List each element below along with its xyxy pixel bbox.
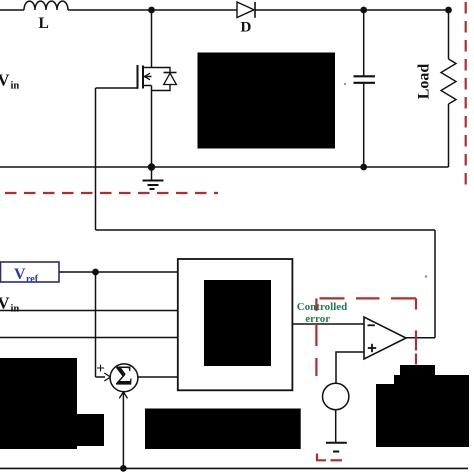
node at source/bottom rail [148, 163, 155, 170]
node at capacitor/top rail [360, 7, 367, 14]
inductor L [24, 1, 68, 10]
svg-text:+: + [96, 361, 105, 377]
svg-text:V: V [0, 71, 10, 90]
svg-text:V: V [14, 266, 26, 283]
wire gate drive: vertical to op-amp output [434, 230, 436, 338]
wire gate drive: vertical from gate [95, 88, 97, 230]
wire summer bottom input [122, 393, 124, 469]
wire top rail right segment [255, 9, 449, 11]
arrowhead into summer (left) [104, 373, 110, 381]
ground (power stage) [143, 167, 164, 189]
svg-text:L: L [39, 15, 49, 32]
ground (reference source) [326, 443, 347, 452]
svg-text:D: D [241, 20, 252, 36]
svg-text:ref: ref [26, 274, 39, 285]
black box (redacted, lower left main) [0, 358, 77, 449]
label Vin (sense input, lower left) [0, 294, 19, 315]
capacitor C [354, 10, 376, 167]
label Vref [14, 266, 39, 285]
svg-text:Controlled: Controlled [297, 301, 348, 313]
wire controlled error output [292, 323, 364, 325]
black box (redacted, bottom right step) [394, 375, 469, 384]
svg-text:in: in [11, 81, 20, 92]
wire gate lead [96, 87, 138, 89]
black box (redacted, lower left extension) [77, 414, 104, 446]
summer S1 [110, 364, 138, 392]
svg-text:Load: Load [416, 64, 433, 100]
Vref box [1, 262, 60, 282]
svg-text:in: in [11, 304, 20, 315]
black box (redacted, bottom center) [145, 409, 301, 450]
arrowhead into summer (bottom) [119, 392, 127, 399]
node on bottom return line [120, 465, 127, 472]
op-amp U1 [364, 317, 406, 359]
wire Vref node down to summer [95, 272, 97, 377]
black box (redacted, bottom right sliver) [400, 365, 435, 375]
wire bottom rail [0, 166, 449, 168]
label Vin (input source, top left) [0, 71, 19, 92]
wire op-amp output [406, 337, 435, 339]
svg-text:V: V [0, 294, 10, 313]
wire Vin sense to block [0, 310, 178, 312]
speck near op-amp box [425, 275, 427, 277]
svg-text:error: error [305, 313, 330, 325]
wire Vref to block [59, 271, 178, 273]
black box (redacted, bottom right main) [376, 384, 469, 447]
wire top rail left segment [0, 9, 24, 11]
wire summer output to block [138, 376, 178, 378]
node at drain/top rail [148, 7, 155, 14]
diode D [237, 2, 255, 18]
wire top rail middle segment [68, 9, 237, 11]
wire third input to block [0, 337, 178, 339]
wire source to ground [335, 410, 337, 443]
wire gate drive: horizontal run [96, 229, 436, 231]
label Controlled error [297, 301, 348, 325]
source V2 (circle symbol) [323, 383, 349, 409]
black box (redacted block inside controller) [204, 280, 271, 366]
wire op-amp + input [336, 352, 364, 384]
black box (redacted block, power stage) [198, 53, 336, 149]
red dashed box around op-amp: top [320, 297, 345, 299]
svg-text:Σ: Σ [115, 361, 133, 391]
block U2 (controller, outline) [178, 259, 293, 390]
node on Vref wire [92, 269, 99, 276]
red dashed box around op-amp: right [415, 298, 417, 309]
node at capacitor/bottom rail [360, 164, 367, 171]
red dash segment near ground [331, 459, 343, 461]
node at load/top rail [445, 7, 452, 14]
red dashed separator (right vertical) [465, 2, 467, 190]
red dashed box: bottom-left corner [317, 454, 326, 461]
speck near capacitor [344, 83, 346, 85]
red dashed box around op-amp: left [315, 298, 317, 311]
resistor Load [441, 10, 456, 167]
wire bottom return line [0, 467, 468, 469]
red dashed separator (left) [5, 192, 218, 194]
transistor Q1 (MOSFET with body diode) [138, 10, 177, 167]
